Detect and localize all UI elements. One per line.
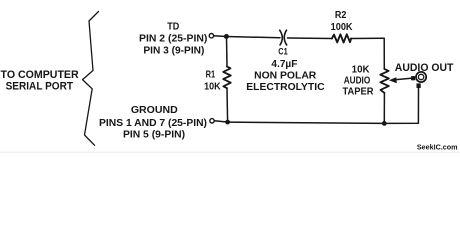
svg-text:PIN 3 (9-PIN): PIN 3 (9-PIN)	[143, 45, 204, 57]
wire: bottom rail to jack ground corner	[384, 88, 418, 123]
svg-text:4.7µF: 4.7µF	[271, 59, 297, 70]
resistor R2	[332, 34, 351, 42]
svg-text:TO COMPUTER: TO COMPUTER	[1, 69, 79, 81]
terminal TD (open circle)	[209, 34, 213, 38]
wire: node A to C1	[226, 37, 280, 38]
capacitor C1 non-polar curved plates	[280, 30, 283, 45]
svg-text:ELECTROLYTIC: ELECTROLYTIC	[246, 82, 325, 93]
potentiometer wiper arrowhead	[389, 77, 397, 83]
wire: ground terminal to node B	[214, 121, 225, 122]
wire: potentiometer bottom to bottom rail	[383, 93, 385, 123]
svg-text:PIN 5 (9-PIN): PIN 5 (9-PIN)	[123, 128, 185, 140]
scan edge artifact bottom	[0, 152, 460, 153]
svg-text:100K: 100K	[331, 22, 353, 33]
wire: R2 to top-right corner, down to potentiometer top	[351, 38, 384, 69]
svg-text:10K: 10K	[204, 82, 221, 93]
wire: bottom rail node B to pot bottom junction	[228, 122, 385, 123]
junction node A (top of R1)	[224, 34, 229, 39]
svg-text:SERIAL PORT: SERIAL PORT	[6, 80, 74, 92]
wire: C1 to R2	[288, 37, 332, 40]
terminal GROUND (open circle)	[210, 119, 214, 123]
jack J1 wiper terminal square	[411, 76, 415, 80]
svg-text:R2: R2	[335, 10, 347, 21]
svg-text:NON POLAR: NON POLAR	[254, 71, 317, 82]
junction node C (pot bottom on rail)	[382, 121, 387, 126]
svg-text:GROUND: GROUND	[131, 104, 178, 116]
svg-text:TAPER: TAPER	[343, 87, 375, 98]
brace (to computer serial port)	[83, 12, 99, 146]
svg-text:SeekIC.com: SeekIC.com	[417, 144, 458, 151]
potentiometer element (10K audio taper)	[380, 69, 389, 93]
svg-text:C1: C1	[278, 47, 288, 58]
potentiometer wiper wire	[394, 78, 412, 80]
jack J1 outer ring	[416, 72, 426, 82]
junction node B (bottom of R1)	[225, 120, 230, 125]
wire: TD terminal to node A	[214, 35, 224, 38]
wire: R1 bottom to node B	[226, 88, 229, 122]
svg-text:TD: TD	[167, 21, 179, 32]
wire: node A down to R1 top	[226, 37, 229, 67]
svg-text:R1: R1	[206, 70, 216, 81]
svg-text:PIN 2 (25-PIN): PIN 2 (25-PIN)	[139, 33, 207, 45]
jack J1 sleeve terminal square	[417, 83, 421, 88]
resistor R1	[223, 67, 231, 89]
svg-text:10K: 10K	[352, 65, 371, 76]
svg-text:AUDIO: AUDIO	[344, 76, 371, 87]
svg-text:PINS 1 AND 7 (25-PIN): PINS 1 AND 7 (25-PIN)	[99, 117, 207, 129]
svg-text:AUDIO OUT: AUDIO OUT	[395, 62, 454, 74]
jack J1 inner contact	[418, 74, 423, 79]
